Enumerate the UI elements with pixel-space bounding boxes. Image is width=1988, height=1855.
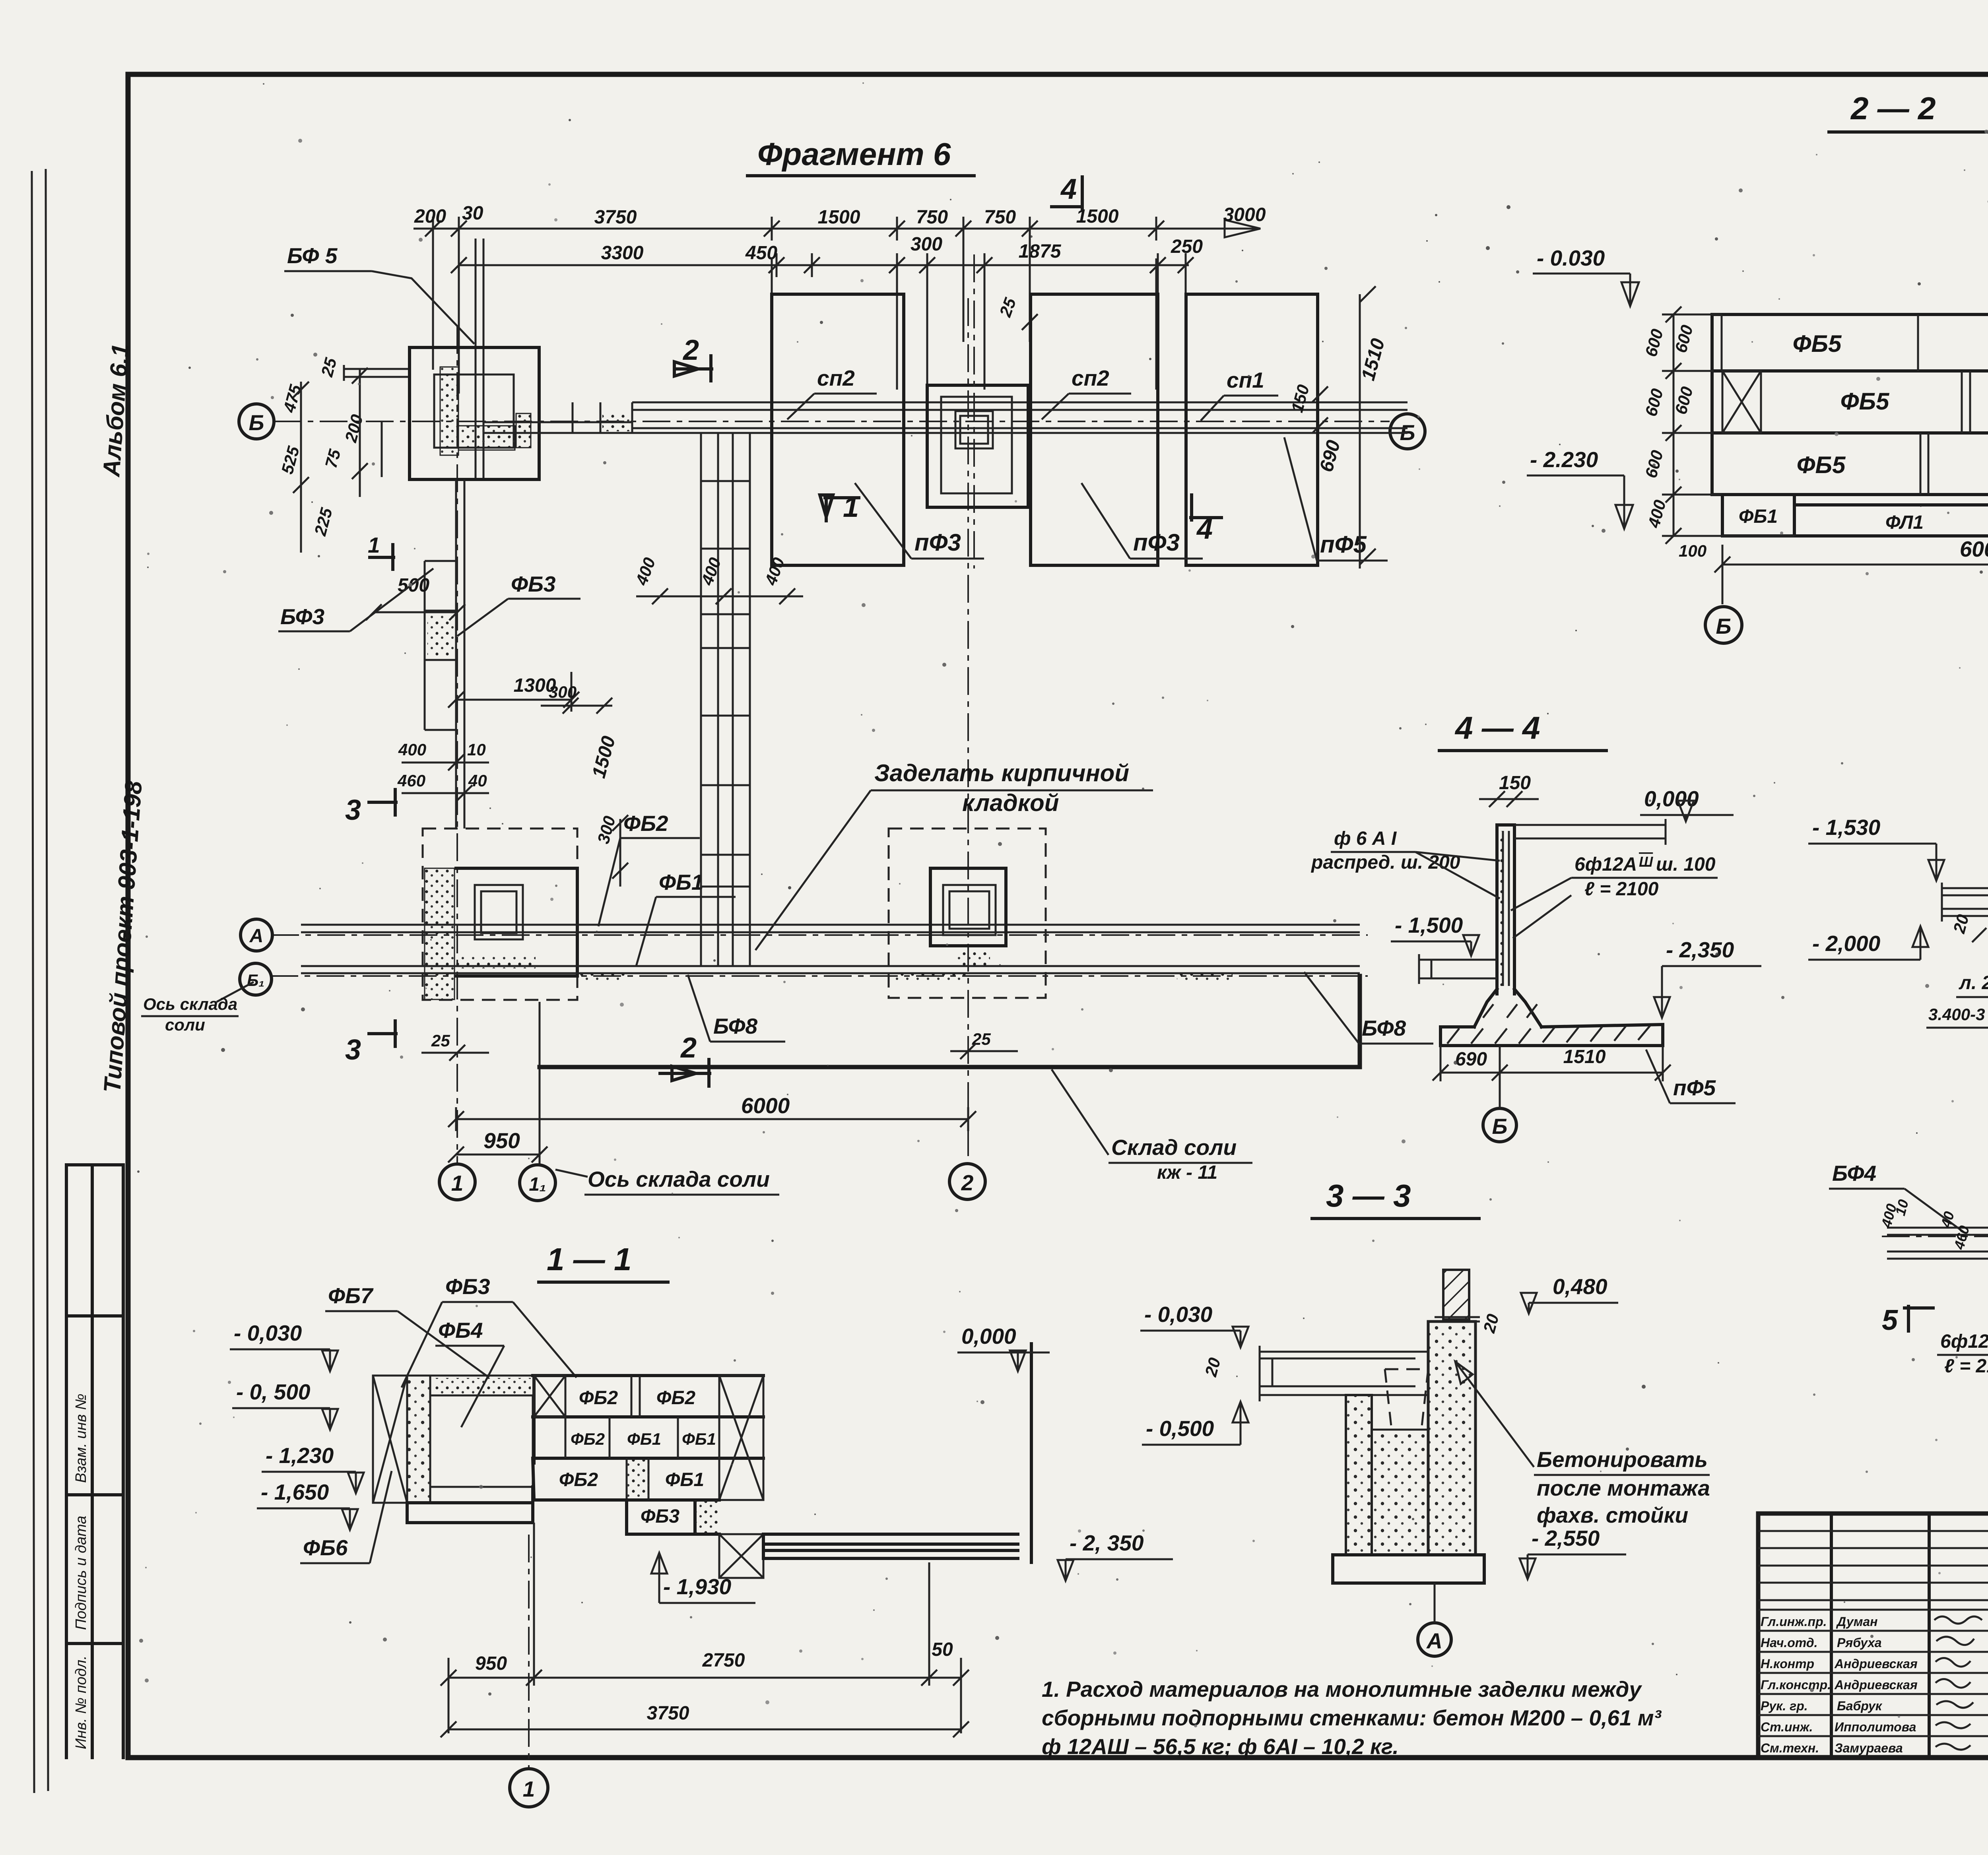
svg-text:Замураева: Замураева bbox=[1835, 1741, 1903, 1755]
svg-text:- 0.030: - 0.030 bbox=[1537, 246, 1605, 270]
svg-text:950: 950 bbox=[483, 1128, 520, 1153]
right slab beam (1-1) bbox=[763, 1534, 1018, 1558]
svg-text:- 0,500: - 0,500 bbox=[1146, 1416, 1214, 1441]
svg-text:Б₁: Б₁ bbox=[247, 971, 265, 990]
left wall small blocks between footings bbox=[425, 561, 456, 730]
svg-text:ФБ2: ФБ2 bbox=[623, 811, 668, 836]
svg-text:ФБ4: ФБ4 bbox=[438, 1318, 483, 1343]
bottom X block bbox=[719, 1534, 763, 1578]
middle pocket 3-3 bbox=[1372, 1430, 1428, 1555]
row3 blocks bbox=[533, 1458, 719, 1500]
svg-text:- 1,650: - 1,650 bbox=[261, 1480, 329, 1504]
footing Б x1 concrete strips bbox=[440, 367, 458, 455]
base slab 3-3 bbox=[1333, 1555, 1484, 1583]
footing Б x1 outer bbox=[410, 347, 539, 479]
svg-text:Б: Б bbox=[249, 410, 264, 435]
svg-text:л. 28: л. 28 bbox=[1959, 972, 1988, 993]
svg-text:Бабрук: Бабрук bbox=[1837, 1699, 1883, 1713]
svg-text:пФ5: пФ5 bbox=[1673, 1075, 1716, 1100]
svg-text:2750: 2750 bbox=[702, 1650, 745, 1671]
svg-text:А: А bbox=[249, 926, 264, 947]
svg-text:690: 690 bbox=[1455, 1049, 1487, 1070]
footing A x2 inner squares bbox=[943, 885, 996, 935]
svg-text:ФБ2: ФБ2 bbox=[579, 1387, 618, 1409]
top slabs 3-3 bbox=[1260, 1346, 1428, 1401]
footing flare 4-4 bbox=[1474, 989, 1541, 1027]
svg-text:Заделать кирпичной: Заделать кирпичной bbox=[874, 760, 1129, 786]
dims bottom (1-1) bbox=[441, 1523, 969, 1733]
svg-text:Гл.инж.пр.: Гл.инж.пр. bbox=[1761, 1614, 1827, 1629]
plate ПФ3 left bbox=[772, 294, 904, 565]
left block 3-3 bbox=[1346, 1395, 1372, 1555]
footing A x1 solid body bbox=[456, 868, 577, 976]
axis А line фр7 bbox=[1882, 1236, 1988, 1237]
svg-text:100: 100 bbox=[1679, 541, 1706, 560]
svg-text:А: А bbox=[1426, 1628, 1442, 1653]
svg-text:Инв. № подл.: Инв. № подл. bbox=[73, 1655, 89, 1749]
beam lines axis Б1 bbox=[301, 966, 1360, 973]
svg-text:Нач.отд.: Нач.отд. bbox=[1761, 1636, 1817, 1650]
row1 block joints bbox=[1722, 314, 1988, 495]
svg-text:30: 30 bbox=[462, 203, 483, 224]
ladder rungs bbox=[701, 481, 750, 887]
svg-text:ФБ3: ФБ3 bbox=[641, 1506, 679, 1527]
svg-text:- 1,500: - 1,500 bbox=[1395, 913, 1463, 937]
svg-text:750: 750 bbox=[984, 207, 1016, 228]
svg-text:1510: 1510 bbox=[1563, 1046, 1606, 1067]
svg-text:ф 6 А I: ф 6 А I bbox=[1334, 828, 1397, 849]
svg-text:пФ3: пФ3 bbox=[1133, 529, 1180, 556]
svg-text:10: 10 bbox=[467, 740, 486, 759]
svg-text:Андриевская: Андриевская bbox=[1834, 1657, 1918, 1671]
extension verticals from dim chains bbox=[433, 223, 1186, 406]
svg-text:300: 300 bbox=[549, 683, 577, 701]
svg-text:2 — 2: 2 — 2 bbox=[1850, 91, 1936, 126]
svg-text:ФБ2: ФБ2 bbox=[656, 1387, 695, 1409]
floor slab 4-4 bbox=[1419, 954, 1497, 984]
svg-text:4 — 4: 4 — 4 bbox=[1454, 710, 1540, 745]
svg-text:ф 12АШ – 56,5 кг; ф 6АI – 10: ф 12АШ – 56,5 кг; ф 6АI – 10,2 кг. bbox=[1042, 1734, 1399, 1759]
axis circles bottom 2-2 bbox=[1705, 607, 1742, 643]
wall pair from footing to сп wall bbox=[483, 422, 632, 433]
floor slab left (5-5) bbox=[1942, 883, 1988, 922]
svg-text:БФ3: БФ3 bbox=[280, 604, 324, 629]
svg-text:3 — 3: 3 — 3 bbox=[1326, 1178, 1411, 1213]
svg-text:Склад соли: Склад соли bbox=[1111, 1135, 1237, 1160]
svg-text:сп2: сп2 bbox=[817, 366, 855, 390]
dim chain 1 ticks bbox=[433, 217, 1156, 241]
vertical axis 1.1 line bbox=[539, 1002, 541, 1164]
svg-text:3000: 3000 bbox=[1223, 204, 1266, 225]
svg-text:3300: 3300 bbox=[601, 243, 644, 264]
svg-text:3750: 3750 bbox=[594, 207, 637, 228]
svg-text:50: 50 bbox=[932, 1639, 953, 1660]
axis circle А left bbox=[241, 919, 272, 951]
svg-text:ФБ1: ФБ1 bbox=[665, 1469, 704, 1490]
svg-text:3: 3 bbox=[345, 1034, 361, 1066]
axis circle 1.1 bbox=[520, 1165, 555, 1201]
row4 ФБ1 block bbox=[1722, 495, 1794, 536]
axis А horizontal dash-dot bbox=[271, 934, 1368, 936]
row4 thin slabs bbox=[1794, 505, 1988, 536]
svg-text:Рук. гр.: Рук. гр. bbox=[1761, 1699, 1808, 1713]
wall outline 2-2 bbox=[1712, 314, 1988, 495]
svg-text:кж - 11: кж - 11 bbox=[1157, 1162, 1217, 1183]
svg-text:Б: Б bbox=[1492, 1114, 1508, 1139]
pocket bbox=[430, 1395, 533, 1487]
beam lines axis А (БФ8) bbox=[301, 925, 1360, 932]
svg-text:1₁: 1₁ bbox=[529, 1174, 546, 1195]
svg-text:4: 4 bbox=[1060, 173, 1077, 205]
svg-text:1875: 1875 bbox=[1019, 241, 1062, 262]
row1 blocks (1-1) bbox=[533, 1376, 763, 1463]
vertical axis 1 dash line bbox=[456, 326, 458, 1163]
svg-text:БФ8: БФ8 bbox=[713, 1014, 757, 1038]
base slab 4-4 bbox=[1441, 1025, 1663, 1046]
svg-text:1: 1 bbox=[523, 1777, 535, 1801]
svg-text:950: 950 bbox=[475, 1653, 507, 1674]
svg-text:- 2, 350: - 2, 350 bbox=[1070, 1531, 1144, 1555]
svg-text:Ст.инж.: Ст.инж. bbox=[1761, 1720, 1813, 1734]
row2 blocks bbox=[565, 1417, 678, 1458]
svg-text:ФБ1: ФБ1 bbox=[682, 1430, 716, 1448]
svg-text:фахв. стойки: фахв. стойки bbox=[1537, 1503, 1688, 1527]
svg-text:БФ8: БФ8 bbox=[1362, 1016, 1406, 1040]
central brick strip (ladder) bbox=[701, 433, 750, 966]
wall pair upper left (axis 1) bbox=[476, 239, 483, 479]
retaining wall lines along Б bbox=[632, 402, 1408, 433]
X block right row1-3 bbox=[719, 1376, 763, 1500]
wall stub left of footing Б1 bbox=[344, 365, 410, 381]
svg-text:2: 2 bbox=[682, 334, 699, 366]
svg-text:1: 1 bbox=[451, 1171, 464, 1195]
wall strip 4-4 bbox=[1497, 825, 1514, 994]
svg-text:- 2.230: - 2.230 bbox=[1530, 447, 1598, 472]
svg-text:Бетонировать: Бетонировать bbox=[1537, 1447, 1708, 1472]
svg-text:ФБ5: ФБ5 bbox=[1793, 330, 1842, 357]
footing Б x1 inner bbox=[434, 374, 514, 448]
top slab right 4-4 bbox=[1514, 819, 1666, 845]
row lines bbox=[1712, 371, 1988, 495]
column centerline x2 bbox=[973, 254, 975, 569]
svg-text:ФБ1: ФБ1 bbox=[627, 1430, 661, 1448]
svg-text:ℓ = 2100: ℓ = 2100 bbox=[1584, 879, 1659, 900]
svg-text:Б: Б bbox=[1716, 614, 1732, 638]
circle Б (4-4) bbox=[1483, 1108, 1516, 1142]
svg-text:- 0, 500: - 0, 500 bbox=[236, 1380, 311, 1404]
row4 ФБ3 bbox=[627, 1500, 719, 1534]
svg-text:Ось склада соли: Ось склада соли bbox=[588, 1167, 770, 1191]
circle 1 (1-1) bbox=[510, 1769, 548, 1807]
dim 6000 bottom bbox=[456, 1118, 968, 1120]
dim chain 2 ticks bbox=[459, 253, 1186, 277]
footing A x1 concrete bbox=[425, 868, 454, 999]
svg-text:См.техн.: См.техн. bbox=[1761, 1741, 1819, 1755]
column stub 3-3 bbox=[1443, 1270, 1469, 1319]
svg-text:0,480: 0,480 bbox=[1553, 1274, 1607, 1299]
svg-text:1500: 1500 bbox=[818, 207, 860, 228]
dim chain 1 line bbox=[414, 228, 1260, 230]
dotted post bbox=[407, 1376, 430, 1503]
svg-text:БФ4: БФ4 bbox=[1832, 1161, 1876, 1186]
svg-text:ФБ3: ФБ3 bbox=[511, 572, 555, 596]
bottom boundary thick bbox=[540, 976, 1360, 1067]
row2 joints bbox=[1761, 371, 1988, 433]
svg-text:3.400-3 вып.1 л. 28: 3.400-3 вып.1 л. 28 bbox=[1928, 1005, 1988, 1024]
svg-text:ФБ3: ФБ3 bbox=[445, 1274, 490, 1299]
svg-text:1. Расход материалов на монол: 1. Расход материалов на монолитные задел… bbox=[1042, 1677, 1642, 1702]
axis circle Б1 left bbox=[240, 963, 272, 995]
circle А (3-3) bbox=[1418, 1623, 1451, 1656]
svg-text:- 0,030: - 0,030 bbox=[1144, 1302, 1213, 1327]
svg-text:ш. 100: ш. 100 bbox=[1656, 854, 1716, 875]
svg-text:- 1,530: - 1,530 bbox=[1812, 815, 1881, 840]
svg-text:200: 200 bbox=[414, 206, 446, 227]
small blocks on Б wall bbox=[573, 402, 632, 433]
outer bbox=[1758, 1513, 1988, 1758]
svg-text:сп2: сп2 bbox=[1072, 366, 1109, 390]
footing A x1 dashed outline bbox=[423, 829, 577, 1000]
name rows bbox=[1758, 1610, 1988, 1736]
svg-text:БФ 5: БФ 5 bbox=[287, 243, 338, 268]
svg-text:250: 250 bbox=[1171, 236, 1203, 257]
svg-text:ФБ2: ФБ2 bbox=[571, 1430, 605, 1448]
right boundary vertical bbox=[1030, 1344, 1033, 1562]
svg-text:Ш: Ш bbox=[1639, 854, 1653, 870]
thin top rows bbox=[1758, 1531, 1988, 1600]
svg-text:кладкой: кладкой bbox=[962, 790, 1059, 816]
footing A x1 inner square bbox=[475, 885, 523, 939]
svg-text:Ипполитова: Ипполитова bbox=[1835, 1720, 1916, 1734]
svg-text:Фрагмент 6: Фрагмент 6 bbox=[757, 136, 951, 172]
svg-text:Андриевская: Андриевская bbox=[1834, 1678, 1918, 1692]
svg-text:0,000: 0,000 bbox=[961, 1324, 1016, 1349]
svg-text:ФБ2: ФБ2 bbox=[559, 1469, 598, 1490]
vertical dividers left part bbox=[1831, 1513, 1988, 1758]
svg-text:ФЛ1: ФЛ1 bbox=[1885, 512, 1924, 533]
svg-text:ℓ = 2100: ℓ = 2100 bbox=[1944, 1356, 1988, 1377]
bottom dims 2-2 bbox=[1714, 536, 1988, 604]
svg-text:Думан: Думан bbox=[1836, 1614, 1878, 1629]
svg-text:6ф12А: 6ф12А bbox=[1940, 1331, 1988, 1352]
svg-text:2: 2 bbox=[961, 1170, 974, 1195]
svg-text:сп1: сп1 bbox=[1227, 368, 1264, 392]
row3 joints bbox=[1920, 433, 1988, 495]
svg-text:ФБ1: ФБ1 bbox=[659, 870, 703, 895]
axis Б1 horizontal dash-dot bbox=[270, 975, 1368, 977]
svg-text:- 0,030: - 0,030 bbox=[234, 1321, 302, 1345]
signatures bbox=[1934, 1616, 1982, 1750]
svg-text:ФБ7: ФБ7 bbox=[328, 1283, 374, 1308]
svg-text:6ф12А: 6ф12А bbox=[1574, 854, 1637, 875]
svg-text:ФБ5: ФБ5 bbox=[1840, 388, 1890, 415]
svg-text:ФБ1: ФБ1 bbox=[1739, 506, 1778, 527]
left page edge lines bbox=[32, 169, 48, 1793]
svg-text:150: 150 bbox=[1499, 772, 1531, 794]
svg-text:ФБ6: ФБ6 bbox=[303, 1535, 348, 1560]
footing A x2 dashed outline bbox=[889, 829, 1046, 998]
svg-text:300: 300 bbox=[911, 234, 942, 255]
svg-text:6000: 6000 bbox=[1960, 537, 1988, 561]
svg-text:ФБ5: ФБ5 bbox=[1797, 452, 1846, 478]
svg-text:- 2,000: - 2,000 bbox=[1812, 931, 1881, 956]
svg-text:3750: 3750 bbox=[647, 1703, 689, 1724]
svg-text:2: 2 bbox=[680, 1032, 697, 1064]
svg-text:1 — 1: 1 — 1 bbox=[547, 1242, 631, 1277]
plate ПФ3 right bbox=[1031, 294, 1158, 565]
dim 950 bottom bbox=[456, 1154, 540, 1156]
svg-text:сборными подпорными стенками:: сборными подпорными стенками: бетон М200… bbox=[1042, 1706, 1662, 1730]
svg-text:Гл.констр.: Гл.констр. bbox=[1761, 1678, 1831, 1692]
footing Б x2 squares bbox=[927, 385, 1028, 507]
dims 690 1510 (4-4) bbox=[1433, 1046, 1671, 1081]
base under left part bbox=[407, 1487, 533, 1523]
axis Б horizontal dash-dot bbox=[274, 421, 1390, 422]
footing A x2 concrete bbox=[956, 950, 990, 966]
svg-text:5: 5 bbox=[1882, 1304, 1898, 1336]
svg-text:- 1,930: - 1,930 bbox=[663, 1574, 732, 1599]
svg-text:Подпись и дата: Подпись и дата bbox=[73, 1516, 89, 1630]
axis circle Б left bbox=[239, 404, 274, 439]
plate ПФ5 bbox=[1186, 294, 1318, 565]
wall pair through footing down bbox=[456, 479, 464, 829]
left stamp boxes column bbox=[66, 1165, 123, 1758]
concrete bed bits on Б1 bbox=[577, 973, 625, 982]
svg-text:Ось склада: Ось склада bbox=[143, 995, 237, 1013]
svg-text:25: 25 bbox=[431, 1031, 450, 1050]
beams left фр7 bbox=[1887, 1228, 1988, 1259]
row2 X block bbox=[1722, 371, 1761, 433]
wall 1-1 : left X column bbox=[373, 1376, 407, 1503]
left dim stack 2-2 bbox=[1662, 307, 1794, 544]
svg-text:- 2,350: - 2,350 bbox=[1666, 937, 1734, 962]
axis circle 2 bbox=[949, 1164, 985, 1199]
svg-text:Взам. инв №: Взам. инв № bbox=[73, 1394, 89, 1483]
axis circle 1 bbox=[439, 1164, 475, 1200]
svg-text:соли: соли bbox=[165, 1015, 205, 1034]
svg-text:1: 1 bbox=[368, 533, 380, 557]
axis circle Б right bbox=[1390, 414, 1425, 449]
svg-text:- 1,230: - 1,230 bbox=[266, 1443, 334, 1468]
dim chain 2 line bbox=[459, 264, 1189, 266]
svg-text:- 2,550: - 2,550 bbox=[1532, 1526, 1600, 1550]
svg-text:3: 3 bbox=[345, 794, 361, 826]
svg-text:Рябуха: Рябуха bbox=[1837, 1636, 1882, 1650]
leader from Ось склада соли to Б1 bbox=[217, 982, 254, 1002]
vertical axis 2 dash line bbox=[967, 298, 969, 1163]
column body 3-3 bbox=[1428, 1321, 1475, 1555]
svg-text:Н.контр: Н.контр bbox=[1761, 1657, 1814, 1671]
svg-text:400: 400 bbox=[398, 740, 426, 759]
svg-text:750: 750 bbox=[916, 207, 948, 228]
svg-text:пФ3: пФ3 bbox=[914, 529, 961, 556]
svg-text:после монтажа: после монтажа bbox=[1537, 1476, 1710, 1500]
svg-text:460: 460 bbox=[397, 771, 425, 790]
svg-text:6000: 6000 bbox=[741, 1093, 790, 1118]
footing A x2 middle bbox=[930, 868, 1006, 946]
